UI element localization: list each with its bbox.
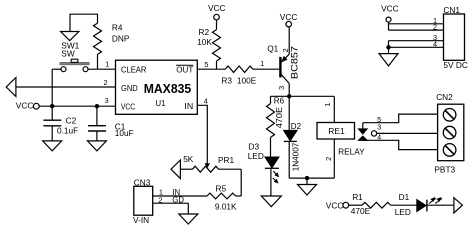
svg-text:D2: D2 bbox=[291, 122, 302, 131]
svg-text:U1: U1 bbox=[156, 98, 166, 108]
svg-text:GND: GND bbox=[121, 83, 138, 93]
svg-text:3: 3 bbox=[105, 96, 109, 105]
svg-text:MAX835: MAX835 bbox=[144, 81, 192, 96]
svg-text:10K: 10K bbox=[197, 37, 212, 47]
svg-text:VCC: VCC bbox=[326, 201, 344, 211]
svg-text:VCC: VCC bbox=[208, 3, 226, 13]
svg-text:4: 4 bbox=[433, 40, 437, 49]
svg-text:VCC: VCC bbox=[16, 101, 34, 111]
svg-text:GD: GD bbox=[172, 196, 184, 205]
svg-text:R4: R4 bbox=[112, 22, 123, 32]
svg-text:VCC: VCC bbox=[381, 4, 399, 14]
svg-text:3: 3 bbox=[277, 86, 286, 90]
svg-text:1: 1 bbox=[323, 103, 332, 107]
svg-text:Q1: Q1 bbox=[267, 44, 278, 54]
svg-text:5K: 5K bbox=[183, 154, 194, 164]
svg-text:2: 2 bbox=[324, 157, 333, 161]
svg-text:SW: SW bbox=[61, 49, 75, 59]
svg-text:R5: R5 bbox=[216, 184, 227, 194]
svg-text:VCC: VCC bbox=[121, 101, 135, 111]
svg-text:CN3: CN3 bbox=[134, 177, 151, 187]
svg-text:V-IN: V-IN bbox=[133, 215, 149, 225]
svg-text:LED: LED bbox=[395, 207, 411, 217]
svg-text:IN: IN bbox=[184, 101, 193, 111]
svg-text:1: 1 bbox=[260, 59, 264, 68]
svg-text:470E: 470E bbox=[351, 206, 371, 216]
svg-text:9.01K: 9.01K bbox=[215, 202, 237, 212]
svg-text:CN2: CN2 bbox=[436, 92, 453, 102]
svg-text:RELAY: RELAY bbox=[338, 146, 365, 156]
svg-text:D3: D3 bbox=[249, 142, 260, 152]
svg-text:4: 4 bbox=[204, 96, 208, 105]
svg-text:5: 5 bbox=[204, 60, 208, 69]
svg-text:100E: 100E bbox=[237, 76, 257, 86]
svg-text:DNP: DNP bbox=[112, 34, 130, 44]
svg-text:CLEAR: CLEAR bbox=[121, 65, 146, 75]
svg-text:R3: R3 bbox=[221, 76, 232, 86]
svg-text:BC857: BC857 bbox=[289, 46, 299, 79]
svg-text:1: 1 bbox=[105, 59, 109, 68]
svg-text:3: 3 bbox=[377, 123, 381, 132]
svg-text:PR1: PR1 bbox=[218, 155, 235, 165]
svg-text:1N4007: 1N4007 bbox=[290, 143, 300, 172]
svg-text:4: 4 bbox=[377, 132, 381, 141]
svg-text:2: 2 bbox=[104, 78, 108, 87]
svg-text:D1: D1 bbox=[399, 192, 410, 202]
svg-text:2: 2 bbox=[433, 22, 437, 31]
svg-text:C2: C2 bbox=[66, 116, 77, 126]
svg-text:VCC: VCC bbox=[280, 12, 298, 22]
svg-text:R2: R2 bbox=[199, 27, 210, 37]
svg-text:OUT: OUT bbox=[176, 65, 193, 75]
svg-text:10uF: 10uF bbox=[115, 128, 134, 138]
svg-text:LED: LED bbox=[248, 151, 264, 161]
svg-text:RE1: RE1 bbox=[328, 126, 345, 136]
svg-text:470E: 470E bbox=[275, 107, 284, 128]
svg-text:CN1: CN1 bbox=[443, 5, 460, 15]
svg-text:R1: R1 bbox=[352, 192, 363, 202]
svg-text:0.1uF: 0.1uF bbox=[57, 125, 78, 135]
svg-text:5V DC: 5V DC bbox=[443, 60, 467, 70]
svg-text:R6: R6 bbox=[274, 96, 285, 105]
svg-text:2: 2 bbox=[158, 196, 162, 205]
svg-text:PBT3: PBT3 bbox=[434, 164, 455, 174]
